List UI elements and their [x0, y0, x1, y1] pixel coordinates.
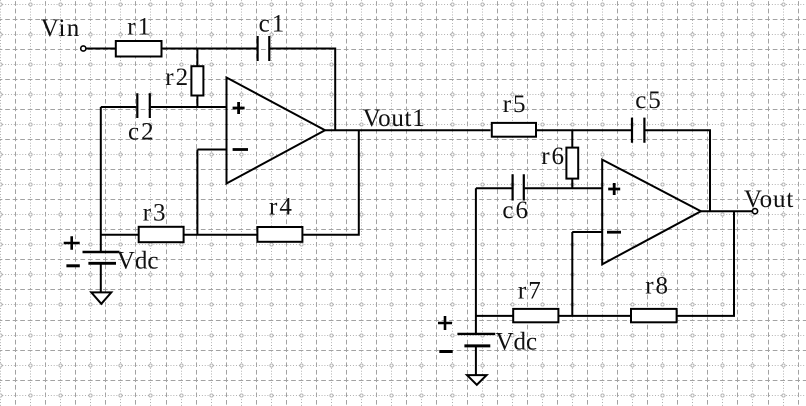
- wire r1 to c1: [162, 48, 258, 50]
- resistor r2: [191, 66, 203, 95]
- resistor r3: [139, 227, 184, 242]
- wire Vin to r1: [86, 48, 116, 50]
- wire output U1 to r5 (node Vout1): [325, 129, 491, 131]
- wire junction to r6: [571, 130, 573, 147]
- pin minus U2: [607, 231, 621, 234]
- battery Vdc2 plus mark: [438, 316, 452, 330]
- svg-text:r1: r1: [127, 14, 152, 41]
- svg-text:c6: c6: [502, 197, 530, 224]
- wire battery junction to r3: [101, 234, 139, 236]
- wire c1 to output node: [269, 49, 335, 131]
- svg-text:Vout1: Vout1: [363, 105, 426, 132]
- svg-text:c1: c1: [259, 11, 287, 38]
- wire c2 to plus input of U1: [151, 106, 227, 108]
- resistor r7: [513, 309, 558, 322]
- wire minus feedback down: [196, 150, 198, 235]
- svg-text:r5: r5: [503, 91, 528, 118]
- wire r2 to plus input: [196, 96, 198, 108]
- op-amp U1: [227, 78, 326, 184]
- svg-text:r7: r7: [518, 277, 543, 304]
- wire minus input of U2: [572, 231, 602, 233]
- wire r5 to c5: [536, 129, 631, 131]
- svg-text:r4: r4: [269, 194, 294, 221]
- resistor r8: [631, 309, 677, 322]
- resistor r1: [116, 41, 162, 57]
- svg-text:r8: r8: [645, 273, 670, 300]
- wire top junction to r2: [196, 49, 198, 67]
- svg-text:r6: r6: [541, 143, 566, 170]
- wire c5 to output node of U2: [645, 130, 710, 211]
- svg-text:r2: r2: [165, 64, 190, 91]
- ground symbol 1: [91, 292, 111, 303]
- svg-text:Vdc: Vdc: [496, 329, 538, 356]
- pin minus U1: [233, 148, 248, 151]
- wire left branch to c6: [476, 187, 512, 189]
- svg-text:r3: r3: [143, 199, 168, 226]
- capacitor c6: [513, 174, 524, 200]
- wire left vertical to battery Vdc1: [100, 107, 102, 252]
- wire battery to ground: [100, 263, 102, 292]
- capacitor c5: [632, 118, 644, 143]
- resistor r5: [492, 123, 536, 137]
- pin plus U1: [233, 102, 245, 114]
- pin plus U2: [608, 183, 620, 195]
- node Vin terminal: [81, 46, 86, 51]
- svg-text:c5: c5: [635, 87, 663, 114]
- ground symbol 2: [467, 375, 487, 385]
- wire battery junction to r7: [476, 315, 513, 317]
- op-amp U2: [602, 160, 701, 265]
- wire minus input of U1: [197, 149, 226, 151]
- wire c6 to plus input of U2: [525, 187, 602, 189]
- wire left branch to c2: [101, 106, 137, 108]
- wire minus feedback of U2: [571, 232, 573, 316]
- wire r8 to output feedback corner: [677, 211, 734, 316]
- svg-text:c2: c2: [128, 118, 156, 145]
- node Vout terminal: [752, 209, 757, 214]
- svg-text:Vin: Vin: [41, 15, 81, 42]
- battery Vdc1 plates: [83, 251, 120, 253]
- resistor r6: [566, 148, 578, 179]
- wire r3 to r4: [184, 234, 258, 236]
- wire left vertical to battery Vdc2: [475, 188, 477, 334]
- svg-text:Vdc: Vdc: [117, 247, 159, 274]
- battery Vdc1 minus mark: [66, 264, 79, 267]
- svg-text:Vout: Vout: [744, 186, 794, 213]
- wire r7 to r8: [558, 315, 631, 317]
- battery Vdc2 plates: [457, 333, 495, 335]
- capacitor c2: [137, 93, 150, 118]
- wire output U2 to Vout terminal: [701, 210, 753, 212]
- battery Vdc1 plus mark: [64, 236, 80, 250]
- battery Vdc2 minus mark: [439, 350, 452, 353]
- wire r6 to plus input wire: [571, 179, 573, 189]
- resistor r4: [257, 227, 302, 242]
- wire r4 to output feedback corner: [303, 130, 359, 235]
- wire battery 2 to ground: [475, 346, 477, 375]
- capacitor c1: [258, 36, 270, 61]
